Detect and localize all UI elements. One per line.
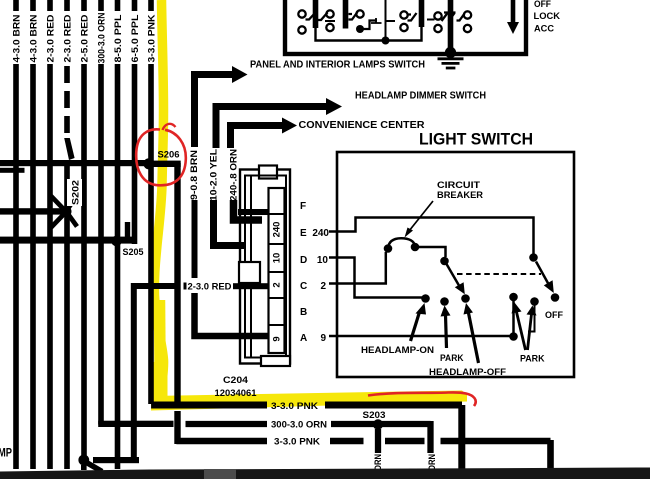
bus wire to S206 bbox=[0, 160, 151, 166]
svg-text:8-5.0 PPL: 8-5.0 PPL bbox=[113, 14, 123, 63]
svg-text:9: 9 bbox=[272, 336, 283, 341]
light switch box outline bbox=[337, 152, 574, 377]
arrow from CIRCUIT BREAKER label bbox=[405, 201, 434, 238]
wire pin D 10 feed to HEADLAMP-ON contact bbox=[329, 258, 422, 298]
svg-text:10: 10 bbox=[272, 253, 283, 264]
gray patch in band bbox=[204, 469, 236, 479]
contact circle group2 bbox=[356, 10, 363, 17]
wire 300-3.0 ORN mid segment bbox=[186, 421, 268, 427]
svg-text:4-3.0 BRN: 4-3.0 BRN bbox=[12, 15, 22, 63]
svg-text:12034061: 12034061 bbox=[215, 388, 258, 399]
svg-text:LOCK: LOCK bbox=[534, 11, 561, 22]
splice dot bottom left bbox=[78, 455, 89, 466]
svg-text:2-3.0 RED: 2-3.0 RED bbox=[46, 14, 56, 63]
red tail squiggle bbox=[163, 124, 176, 130]
switch box outline bbox=[285, 0, 526, 54]
internal divider wire bbox=[385, 0, 387, 40]
svg-text:10: 10 bbox=[317, 255, 329, 266]
wire 3 cap 2-3.0 RED bbox=[47, 0, 53, 11]
dash left of group4 bbox=[427, 19, 435, 21]
wire pin E 240 feed to OFF pivot bbox=[329, 218, 534, 255]
contact dot PARK right b bbox=[530, 297, 539, 306]
wire 8 cap 6-5.0 PPL bbox=[132, 0, 138, 11]
label 300-3.0 ORN on white bbox=[268, 416, 330, 431]
connector bottom tab bbox=[261, 356, 290, 366]
svg-text:ORN: ORN bbox=[373, 454, 383, 471]
wire pin C 2 feed to circuit breaker bbox=[329, 252, 386, 284]
splice dot S202 bbox=[61, 206, 72, 217]
S206 branch wire right bbox=[149, 161, 181, 167]
svg-text:ACC: ACC bbox=[534, 24, 554, 35]
wire 1 (4-3.0 BRN) bbox=[13, 64, 19, 469]
pivot dot OFF arm bbox=[529, 253, 538, 262]
svg-text:A: A bbox=[300, 333, 307, 344]
wire 7 cap 8-5.0 PPL bbox=[115, 0, 121, 11]
diagonal branch from dot bbox=[87, 463, 103, 472]
svg-text:6-5.0 PPL: 6-5.0 PPL bbox=[130, 14, 140, 63]
highlighter: horizontal yellow band along 3-3.0 PNK wire bbox=[151, 391, 467, 411]
svg-text:240-.8 ORN: 240-.8 ORN bbox=[229, 149, 239, 201]
svg-text:3-3.0 PNK: 3-3.0 PNK bbox=[271, 401, 318, 412]
wire 5 cap 2-5.0 RED bbox=[81, 0, 87, 11]
step wire from group2 dot bbox=[360, 21, 377, 30]
svg-text:3-3.0 PNK: 3-3.0 PNK bbox=[147, 14, 157, 63]
connector entry bar (240-.8 ORN) bbox=[238, 209, 268, 215]
circuit breaker arc bbox=[388, 238, 415, 248]
svg-text:E: E bbox=[300, 228, 307, 239]
wire 9 (3-3.0 PNK) upper to S206 bbox=[148, 64, 154, 163]
wire/arrow CONVENIENCE CENTER bbox=[231, 118, 298, 149]
svg-text:300-3.0 ORN: 300-3.0 ORN bbox=[97, 13, 107, 64]
S206 branch wire down (to PNK bottom wire) bbox=[174, 163, 180, 402]
wire/arrow HEADLAMP DIMMER SWITCH bbox=[216, 98, 342, 148]
svg-text:300-3.0 ORN: 300-3.0 ORN bbox=[271, 420, 327, 431]
contact dot PARK left bbox=[440, 297, 449, 306]
svg-text:4-3.0 BRN: 4-3.0 BRN bbox=[29, 15, 39, 63]
ORN drop wire right bbox=[427, 421, 433, 453]
contact dot HEADLAMP-ON bbox=[421, 294, 430, 303]
red underline bbox=[368, 392, 476, 406]
svg-text:2-3.0 RED: 2-3.0 RED bbox=[188, 282, 232, 292]
wire 9-0.8 BRN upper bbox=[192, 200, 198, 278]
bottom harness band bbox=[0, 468, 650, 479]
label 3-3.0 PNK on white bbox=[269, 433, 325, 448]
ORN drop wire from S203 bbox=[375, 429, 381, 453]
stub under PARK right b contact bbox=[528, 305, 535, 332]
contact dot HEADLAMP-OFF bbox=[461, 294, 470, 303]
svg-text:HEADLAMP-ON: HEADLAMP-ON bbox=[361, 345, 434, 355]
pivot dot circuit breaker right bbox=[411, 243, 420, 252]
wire 3-3.0 PNK lower mid segment bbox=[330, 438, 364, 445]
wire 240-.8 ORN to connector bbox=[234, 200, 263, 220]
pole bar group1 bbox=[313, 0, 319, 28]
wire 9 (3-3.0 PNK) below S206 to corner bbox=[148, 163, 154, 404]
wire 3-3.0 PNK lower segment 3 bbox=[385, 438, 425, 445]
pole bar group2 bbox=[343, 0, 349, 29]
switch arm group1 bbox=[306, 12, 319, 20]
wire 10-2.0 YEL to connector bbox=[214, 200, 246, 246]
dash between group2 and group3 bbox=[387, 20, 396, 22]
svg-text:9-0.8 BRN: 9-0.8 BRN bbox=[189, 150, 199, 200]
S202 diagonal branch up-right bbox=[68, 198, 76, 209]
svg-text:240: 240 bbox=[312, 228, 329, 239]
wire 2 (4-3.0 BRN) bbox=[30, 64, 36, 469]
dash under group1 bbox=[325, 20, 335, 22]
short bus wire stub bbox=[0, 168, 25, 173]
svg-text:S202: S202 bbox=[71, 180, 81, 205]
svg-text:S203: S203 bbox=[363, 410, 386, 420]
svg-text:CIRCUIT: CIRCUIT bbox=[437, 180, 481, 190]
wire 3 (2-3.0 RED) bbox=[47, 64, 53, 469]
label tick bbox=[184, 283, 187, 290]
switch arms group4 bbox=[442, 13, 449, 22]
S202 diagonal branch down-left bbox=[51, 214, 64, 228]
svg-text:240: 240 bbox=[272, 222, 283, 238]
stub below dot bbox=[81, 465, 87, 470]
highlighter: vertical yellow stroke along 3-3.0 PNK wire bbox=[154, 0, 163, 399]
svg-text:2: 2 bbox=[320, 281, 326, 292]
wire 300-3.0 ORN left segment bbox=[98, 421, 173, 427]
svg-text:BREAKER: BREAKER bbox=[437, 190, 484, 200]
svg-text:9: 9 bbox=[320, 333, 326, 344]
wire 5 (2-5.0 RED) ends at splice dot bbox=[81, 64, 87, 456]
svg-text:C: C bbox=[300, 281, 307, 292]
svg-text:D: D bbox=[300, 255, 307, 266]
contact dot group2 bbox=[356, 25, 364, 33]
splice dot S203 bbox=[373, 419, 383, 429]
wire 4 lower (2-3.0 RED) bbox=[64, 164, 70, 469]
connector pin column bbox=[269, 188, 285, 353]
wire 3-3.0 PNK lower, from branch corner bbox=[176, 438, 267, 441]
pole bar group4 (to ground) bbox=[448, 0, 454, 52]
svg-text:3-3.0 PNK: 3-3.0 PNK bbox=[274, 436, 320, 447]
wire breaker to arm pivot bbox=[415, 247, 446, 257]
wire 3-3.0 PNK lower right segment with drop bbox=[441, 440, 551, 471]
wire pin A 9 bus to PARK contacts bbox=[329, 300, 514, 336]
wire/arrow PANEL AND INTERIOR LAMPS SWITCH bbox=[195, 66, 248, 147]
internal junction dot bbox=[382, 37, 390, 45]
ground symbol bbox=[438, 52, 464, 68]
svg-text:MP: MP bbox=[0, 446, 12, 460]
wire 6 cap 300-3.0 ORN bbox=[98, 0, 104, 11]
internal bus wire bbox=[316, 26, 422, 41]
junction dot on pin-9 bus bbox=[509, 332, 518, 341]
splice dot S206 bbox=[143, 158, 154, 169]
svg-text:2-3.0 RED: 2-3.0 RED bbox=[63, 14, 73, 63]
contact circles group4 bbox=[434, 11, 471, 32]
wire 300-3.0 ORN right segment to S203 bbox=[331, 421, 431, 427]
svg-text:F: F bbox=[300, 201, 306, 212]
red circle around S206 bbox=[136, 129, 186, 185]
svg-text:OFF: OFF bbox=[534, 0, 551, 10]
connector cavity box bbox=[239, 262, 260, 283]
junction dot at box bottom bbox=[445, 47, 456, 58]
branch wire lower segment (below 3-3.0 PNK wire) bbox=[174, 411, 180, 444]
switch arm OFF bbox=[536, 262, 554, 294]
wire 7 (8-5.0 PPL) bbox=[115, 64, 121, 469]
wire 4 dashed segment (2-3.0 RED) bbox=[64, 66, 74, 160]
svg-text:OFF: OFF bbox=[545, 310, 563, 320]
short bar wire bbox=[93, 457, 139, 463]
wire 3-3.0 PNK horizontal (highlighted) bbox=[151, 405, 462, 469]
label S202 bbox=[67, 179, 82, 206]
svg-text:S205: S205 bbox=[123, 247, 144, 257]
connector inner wall bbox=[250, 176, 252, 357]
wire 8 (6-5.0 PPL) upper bbox=[132, 64, 138, 244]
connector body inner bbox=[245, 176, 286, 358]
svg-text:PANEL AND INTERIOR LAMPS SWITC: PANEL AND INTERIOR LAMPS SWITCH bbox=[250, 60, 425, 71]
S202 diagonal branch down-right bbox=[68, 214, 77, 227]
wire 6 (300-3.0 ORN) down to ORN branch corner bbox=[98, 64, 104, 425]
svg-text:PARK: PARK bbox=[520, 354, 545, 364]
stub wire right of S205 bbox=[125, 222, 130, 240]
pivot dot circuit breaker left bbox=[384, 244, 393, 253]
svg-text:2: 2 bbox=[272, 282, 283, 287]
svg-text:HEADLAMP DIMMER SWITCH: HEADLAMP DIMMER SWITCH bbox=[355, 91, 486, 102]
wire 4 cap 2-3.0 RED bbox=[64, 0, 70, 11]
tee mark bbox=[371, 18, 382, 23]
contact dot PARK right a bbox=[509, 293, 518, 302]
pole bar group3 bbox=[419, 0, 425, 27]
svg-text:C204: C204 bbox=[223, 375, 249, 386]
contact dot OFF bbox=[551, 293, 560, 302]
wire 2 cap 4-3.0 BRN bbox=[30, 0, 36, 11]
svg-text:CONVENIENCE CENTER: CONVENIENCE CENTER bbox=[299, 120, 426, 131]
svg-text:LIGHT SWITCH: LIGHT SWITCH bbox=[419, 130, 533, 149]
pin cell dividers bbox=[269, 214, 285, 325]
svg-text:B: B bbox=[300, 307, 307, 318]
connector top tab bbox=[259, 166, 277, 179]
svg-text:HEADLAMP-OFF: HEADLAMP-OFF bbox=[429, 367, 507, 377]
svg-text:2-5.0 RED: 2-5.0 RED bbox=[80, 14, 90, 63]
wire 9 cap 3-3.0 PNK bbox=[148, 0, 154, 11]
bus wire to S202 bbox=[0, 208, 68, 214]
connector body outer bbox=[240, 170, 290, 364]
wire 2-3.0 RED left segment with corner down bbox=[131, 286, 181, 460]
switch arm group3 bbox=[408, 13, 417, 21]
wire 1 cap 4-3.0 BRN bbox=[13, 0, 19, 11]
bus wire to S205 bbox=[0, 237, 137, 244]
wire 9-0.8 BRN lower to pin A bbox=[195, 293, 269, 336]
svg-text:10-2.0 YEL: 10-2.0 YEL bbox=[209, 148, 219, 201]
ignition position arrow bbox=[507, 0, 519, 34]
switch arm group2 bbox=[349, 12, 358, 20]
splice dot S205 bbox=[111, 236, 122, 247]
pivot dot arm bbox=[440, 257, 449, 266]
wire 2-3.0 RED right segment to connector bbox=[233, 283, 268, 289]
mechanical link dashed line bbox=[457, 273, 541, 275]
switch arm (moving contact) to HEADLAMP-OFF bbox=[447, 264, 465, 294]
S202 diagonal branch up-left bbox=[51, 196, 64, 210]
svg-text:S206: S206 bbox=[158, 150, 180, 160]
svg-text:PARK: PARK bbox=[440, 353, 464, 363]
contact circles group3 bbox=[400, 11, 407, 31]
contact circles group1 bbox=[298, 10, 333, 33]
